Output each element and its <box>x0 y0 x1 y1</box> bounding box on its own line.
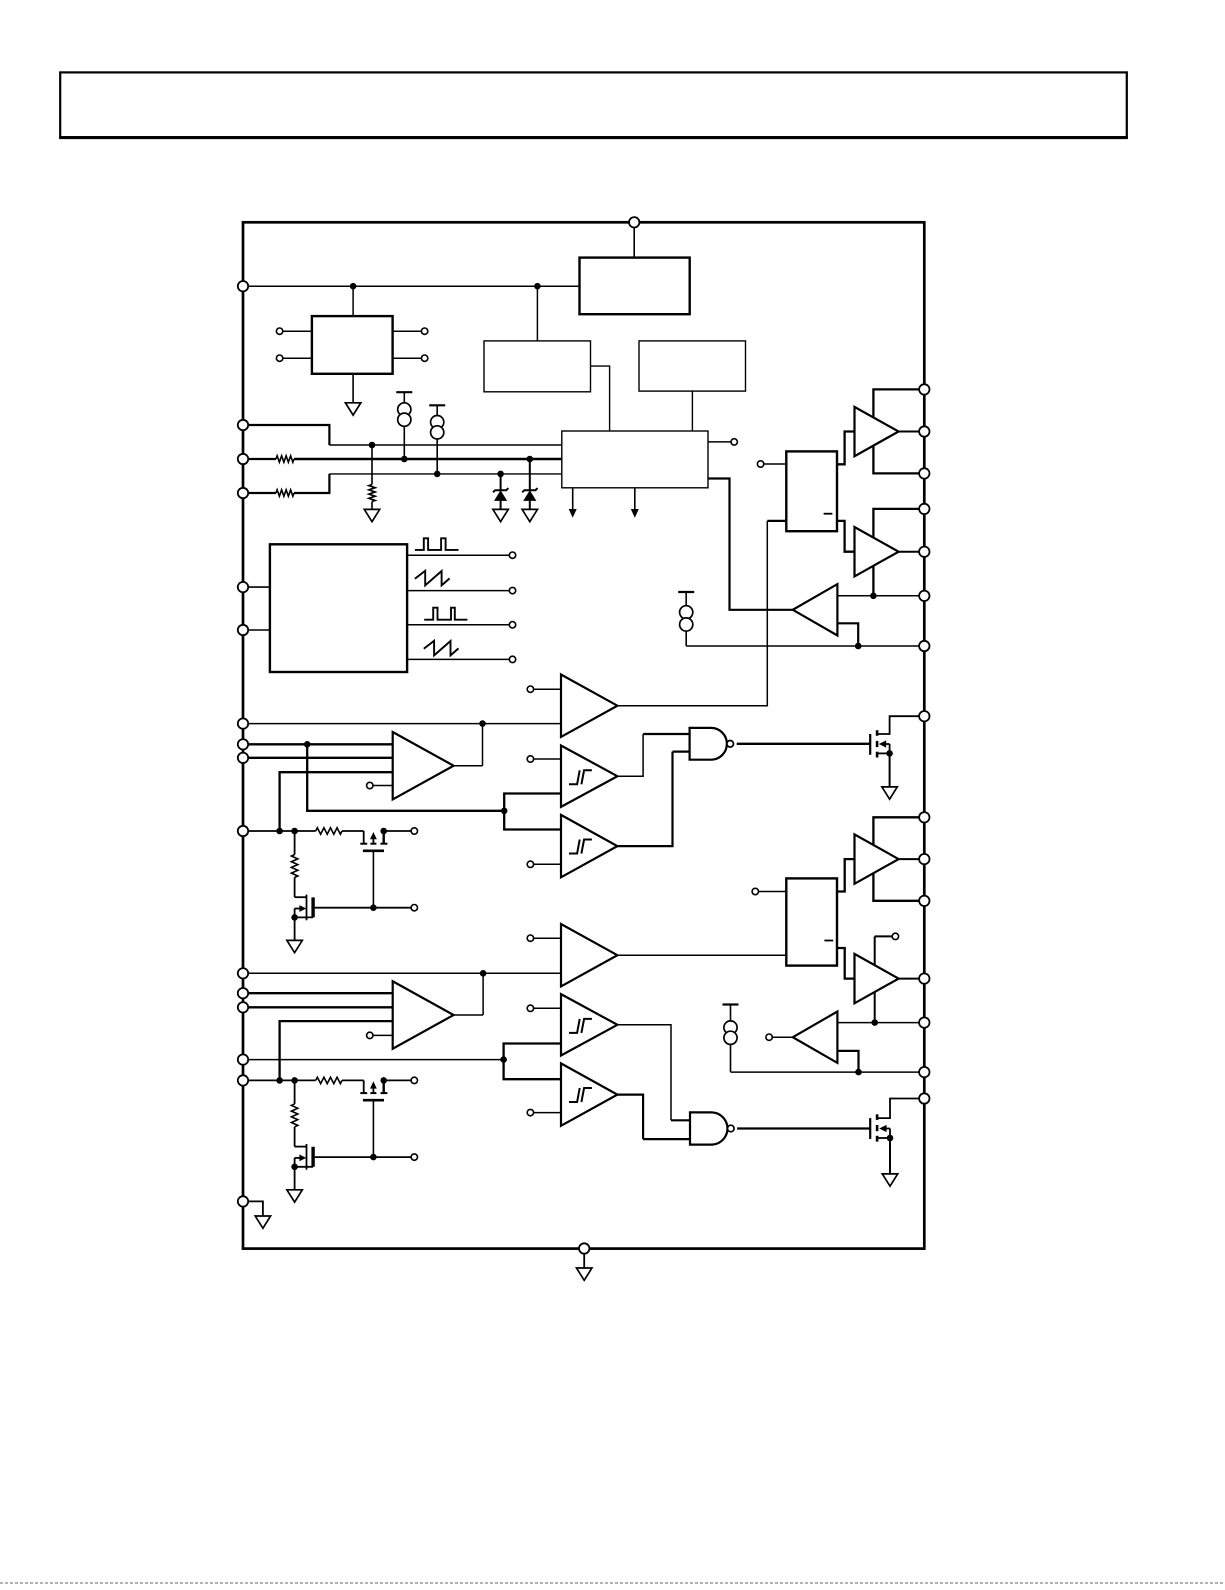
current source I1 <box>396 392 412 459</box>
waveform glyph saw 1 <box>415 571 450 586</box>
stub comparator U1 input <box>527 686 561 692</box>
block thermal shutdown (right of pair) <box>639 341 746 391</box>
pin SCH2 rail (left edge) <box>238 1054 248 1064</box>
wire NAND G2 output <box>737 1127 870 1129</box>
wire to UVLO block <box>352 286 354 316</box>
pin VDD rail (left edge) <box>238 281 248 291</box>
wire driver A1 to buffer U6 <box>837 432 855 465</box>
wire opamp2 input 2 <box>248 1006 393 1008</box>
pin OUTH2 (right edge) <box>919 854 929 864</box>
wire opamp1 input 2 <box>248 757 393 759</box>
pin OSC-1 (left edge) <box>238 582 270 592</box>
resistor R3 mute2 <box>316 1077 364 1083</box>
wire Q1 source <box>877 750 893 757</box>
wire comparator U8 output <box>617 954 786 956</box>
NAND gate G2 <box>690 1112 734 1144</box>
wire PWM to inverter U5 <box>708 479 794 610</box>
wire IN-B rail <box>294 458 562 460</box>
pin OUTL2 (right edge) <box>919 973 929 983</box>
wire VDD rail <box>248 285 579 287</box>
junction schmitt U-wire ch2 <box>500 1056 507 1063</box>
pin stub UVLO right 2 <box>393 355 428 361</box>
wire buffer U7 output <box>899 551 920 553</box>
stub inverter U14 output <box>766 1034 793 1040</box>
junction schmitt U-wire ch1 <box>501 808 508 815</box>
wire opamp1 input 1 <box>248 743 393 745</box>
pin OSC-2 (left edge) <box>238 625 270 635</box>
wire IN-C step <box>294 474 562 493</box>
IC boundary rectangle <box>243 222 924 1248</box>
stub VCC2 <box>875 933 899 939</box>
stub schmitt U10 input <box>527 1005 561 1011</box>
op-amp U2 (error amp ch1) <box>393 732 454 799</box>
pin DT2 (right edge) <box>919 1067 929 1077</box>
junction VDD rail / block2 <box>534 283 541 290</box>
driver block A1 ch1 <box>786 451 837 531</box>
buffer U12 high-side ch2 <box>855 834 899 883</box>
Q1 body arrow <box>879 740 890 753</box>
ground Q1 source <box>882 753 897 799</box>
transistor M1 (lateral) <box>360 831 387 851</box>
current source I4 <box>723 1005 739 1073</box>
stub schmitt U11 input <box>527 1109 561 1115</box>
wire buffer U6 output <box>899 431 920 433</box>
wire schmitt U4 to NAND <box>617 752 689 847</box>
comparator U8 ch2 <box>561 924 617 986</box>
pin COMP1 rail (left edge) <box>238 718 248 728</box>
wire M1 drain stub <box>384 828 418 834</box>
osc output wire 3 <box>407 622 516 628</box>
ground AGND <box>248 1201 270 1228</box>
wire VCC1 vertical (behind buffer U7) <box>873 509 919 596</box>
wire opamp2 input 3 <box>280 1021 393 1080</box>
pin DT1 (right edge) <box>919 641 929 651</box>
wire schmitt U10 to NAND <box>617 1025 690 1121</box>
zener diode D2 <box>522 459 538 522</box>
transistor M3 (lateral) <box>360 1080 387 1100</box>
resistor to ground (mid rails) <box>364 445 379 522</box>
wire VDD pin to reference block <box>633 228 635 258</box>
junction mute1 a <box>276 828 283 835</box>
pin OUTL1 (right edge) <box>919 547 929 557</box>
schmitt trigger U3 ch1 <box>561 746 617 807</box>
junction IN-A rail <box>369 442 376 449</box>
junction IN-C / current source 2 <box>434 471 441 478</box>
pin IN-B (left edge) <box>238 454 248 464</box>
ground below UVLO <box>345 374 360 415</box>
buffer U6 high-side ch1 <box>855 407 899 456</box>
wire BST2 C-shape <box>873 817 919 901</box>
pin BST2 (right edge) <box>919 812 929 822</box>
current source I2 <box>429 405 445 474</box>
driver block A2 ch2 <box>786 878 837 965</box>
pin NI2 (left edge) <box>238 1002 248 1012</box>
waveform glyph pulse 2 <box>424 608 467 620</box>
junction SW sense rail ch1 <box>870 593 877 600</box>
resistor R1 mute1 <box>316 828 364 834</box>
pin DRAIN2 (right edge) <box>919 1093 929 1103</box>
inverter U5 ch1 <box>793 584 838 635</box>
NAND gate G1 <box>690 728 734 760</box>
wire M2 drain stub <box>315 905 418 911</box>
wire sense rail ch1 <box>837 595 919 597</box>
wire driver A2 to buffer U12 <box>837 859 855 891</box>
transistor M2 <box>291 895 313 921</box>
junction VDD rail / UVLO <box>350 283 357 290</box>
junction dead-time rail ch1 <box>855 643 862 650</box>
pin MUTE2 (left edge) <box>238 1075 248 1085</box>
wire schmitt U11 to NAND <box>617 1095 690 1140</box>
block reference/bias (top) <box>580 258 690 315</box>
wire feedback bus ch1 <box>307 744 504 811</box>
waveform glyph pulse 1 <box>415 538 459 550</box>
junction M4 drain <box>370 1154 377 1161</box>
wire opamp1 output riser <box>454 724 483 766</box>
pin MUTE1 (left edge) <box>238 826 248 836</box>
inverter U14 ch2 <box>793 1012 838 1063</box>
ground Q2 source <box>882 1138 897 1186</box>
wire dead-time rail ch1 <box>686 645 919 647</box>
junction M2 drain <box>370 904 377 911</box>
wire Q2 source <box>877 1135 893 1142</box>
wire Q2 drain to pin <box>877 1099 919 1119</box>
schmitt trigger U11 ch2 <box>561 1063 617 1125</box>
wire opamp1 input 3 <box>280 772 393 831</box>
stub comparator U8 input <box>527 935 561 941</box>
schmitt trigger U4 ch1 <box>561 815 617 877</box>
pin SW2 (right edge) <box>919 896 929 906</box>
resistor R2 mute1 <box>291 831 306 897</box>
pin SENSE1 (right edge) <box>919 591 929 601</box>
pin DRAIN1 (right edge) <box>919 711 929 721</box>
wire M1 gate down <box>372 851 374 908</box>
wire driver A1 to buffer U7 <box>837 521 855 552</box>
wire IN-A step <box>248 425 562 445</box>
junction IN-B / current source <box>401 456 408 463</box>
junction dead-time rail ch2 <box>855 1069 862 1076</box>
stub schmitt U3 input <box>527 756 561 762</box>
osc output wire 4 <box>407 656 516 662</box>
wire M3 gate down <box>372 1100 374 1157</box>
transistor M4 <box>291 1144 313 1170</box>
pin AGND (left edge) <box>238 1196 248 1206</box>
junction mute2 a <box>276 1077 283 1084</box>
stub driver A2 input <box>752 888 786 894</box>
pin SW1 (right edge) <box>919 468 929 478</box>
wire dead-time rail ch2 <box>731 1071 920 1073</box>
stub schmitt U4 input <box>527 861 561 867</box>
wire BST1 C-shape <box>873 389 919 473</box>
arrow PWM down 1 <box>569 488 577 518</box>
pin PGND (bottom edge) <box>579 1243 589 1253</box>
pin stub UVLO right 1 <box>393 328 428 334</box>
transistor Q2 channel <box>876 1114 879 1141</box>
stub PWM output right <box>708 439 737 445</box>
wire schmitt rail ch2 <box>248 1059 503 1061</box>
comparator U1 ch1 <box>561 675 617 737</box>
buffer U13 low-side ch2 <box>855 954 899 1003</box>
stub opamp2 input 4 <box>367 1032 393 1038</box>
wire block soft-start to PWM block <box>591 366 610 431</box>
page footer dotted rule <box>0 1582 1225 1584</box>
pin stub UVLO left 2 <box>276 355 312 361</box>
pin IN-C (left edge) <box>238 488 248 498</box>
title block frame <box>59 72 1128 137</box>
pin stub UVLO left 1 <box>276 328 312 334</box>
junction opamp1 output <box>479 720 486 727</box>
wire sense rail ch2 <box>837 1022 919 1024</box>
wire comparator U1 output <box>617 521 786 706</box>
arrow PWM down 2 <box>631 488 639 518</box>
schmitt trigger U10 ch2 <box>561 994 617 1055</box>
pin OUTH1 (right edge) <box>919 426 929 436</box>
junction mute1 b <box>291 828 298 835</box>
junction M1 drain <box>380 828 387 835</box>
osc output wire 2 <box>407 587 516 593</box>
block UVLO <box>312 316 393 374</box>
junction sense rail ch2 <box>871 1019 878 1026</box>
transistor Q1 gate bar <box>869 734 871 755</box>
transistor Q1 channel <box>876 730 879 757</box>
junction mute2 b <box>291 1077 298 1084</box>
junction IN-C / zener 1 <box>497 471 504 478</box>
op-amp U9 (error amp ch2) <box>393 981 454 1048</box>
pin IN-A (left edge) <box>238 420 248 430</box>
pin COMP2 rail (left edge) <box>238 968 248 978</box>
junction opamp2 output <box>480 970 487 977</box>
resistor R4 mute2 <box>291 1080 306 1146</box>
junction feedback bus <box>304 741 311 748</box>
wire M3 drain stub <box>384 1077 418 1083</box>
wire Q1 drain to pin <box>877 716 919 734</box>
pin SENSE2 (right edge) <box>919 1017 929 1027</box>
junction IN-B / zener 2 <box>527 456 534 463</box>
ground PGND <box>577 1254 592 1281</box>
buffer U7 low-side ch1 <box>855 527 899 576</box>
resistor R-inC <box>248 490 294 496</box>
stub driver A1 input <box>757 461 786 467</box>
zener diode D1 <box>493 474 509 522</box>
wire opamp2 input 1 <box>248 992 393 994</box>
block soft-start (left of pair) <box>484 341 591 392</box>
pin VCC1 (right edge) <box>919 504 929 514</box>
wire schmitt U ch2 <box>504 1044 561 1080</box>
wire inverter U14 lower stub <box>837 1051 858 1072</box>
wire schmitt U ch1 <box>504 794 561 830</box>
pin NI1 (left edge) <box>238 753 248 763</box>
wire mute2 line <box>248 1079 316 1081</box>
block PWM logic <box>562 431 708 488</box>
transistor Q2 gate bar <box>869 1118 871 1139</box>
current source I3 <box>678 592 694 646</box>
junction M3 drain <box>380 1077 387 1084</box>
wire M4 drain stub <box>315 1154 418 1160</box>
osc output wire 1 <box>407 552 516 558</box>
wire buffer U13 output <box>899 978 920 980</box>
wire comparator C2 rail <box>248 972 561 974</box>
pin BST1 (right edge) <box>919 384 929 394</box>
wire comparator C1 rail <box>248 723 561 725</box>
resistor R-inB <box>248 456 294 462</box>
stub opamp1 input 4 <box>367 782 393 788</box>
pin VDD (top edge) <box>629 217 639 227</box>
Q2 body arrow <box>879 1125 890 1138</box>
wire NAND G1 output <box>737 743 871 745</box>
wire block2 feed <box>536 286 538 341</box>
pin INV2 (left edge) <box>238 988 248 998</box>
wire buffer U12 output <box>899 858 920 860</box>
wire mute1 line <box>248 830 316 832</box>
pin INV1 (left edge) <box>238 739 248 749</box>
ground M2 source <box>287 917 302 952</box>
wire inverter U5 lower stub <box>837 623 858 646</box>
wire opamp2 output riser <box>454 973 484 1015</box>
waveform glyph saw 2 <box>424 641 459 656</box>
block oscillator <box>270 544 407 672</box>
wire driver A2 to buffer U13 <box>837 948 855 979</box>
wire block thermal to PWM block <box>691 391 693 431</box>
wire VCC2 vertical (behind buffer U13) <box>874 936 876 1022</box>
ground M4 source <box>287 1167 302 1202</box>
wire schmitt U3 to NAND <box>617 734 689 776</box>
